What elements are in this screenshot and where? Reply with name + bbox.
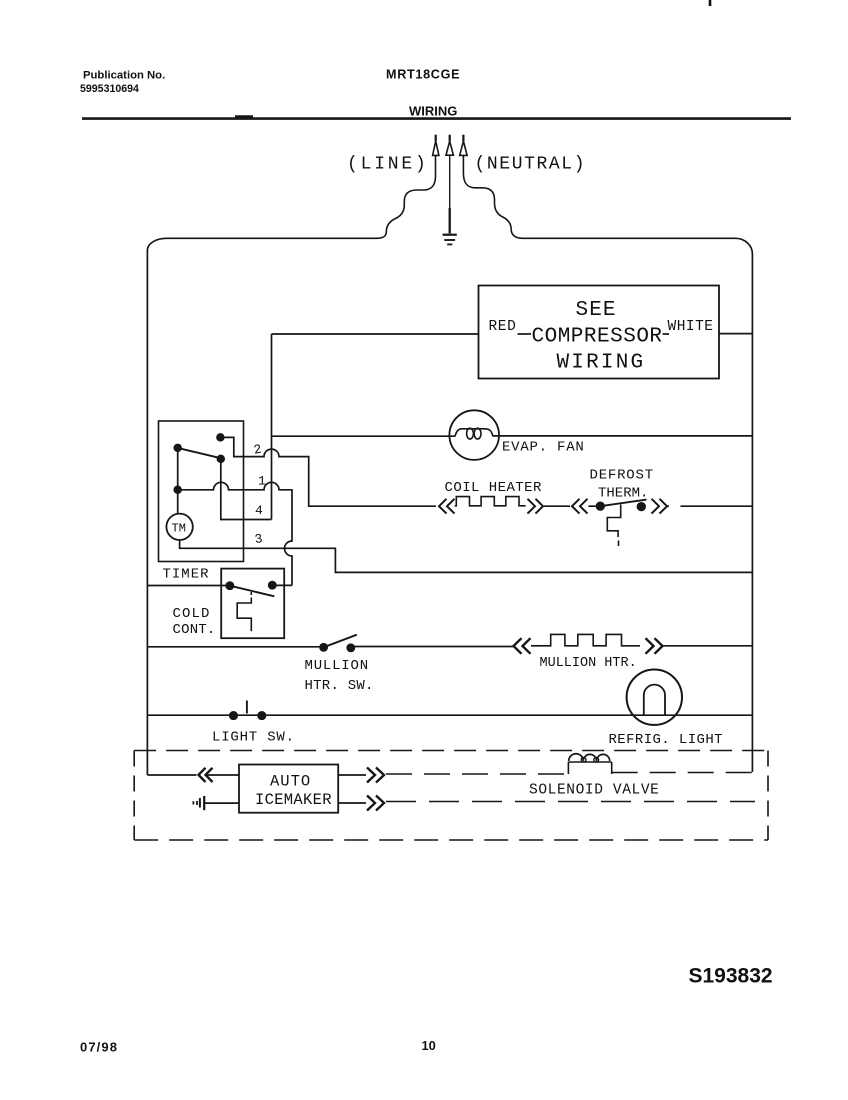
svg-text:07/98: 07/98	[80, 1040, 118, 1055]
wire: chevron tail to icemaker box	[206, 774, 240, 776]
wire	[588, 505, 600, 507]
wire: switch to mullion heater	[351, 646, 513, 648]
wire: white row from box to right edge	[719, 333, 752, 335]
svg-text:S193832: S193832	[689, 965, 773, 988]
rule blob artifact	[235, 115, 253, 118]
wire: timer 4 to main vertical	[221, 459, 272, 520]
svg-text:(NEUTRAL): (NEUTRAL)	[475, 155, 587, 175]
wire: icemaker bottom out	[338, 802, 366, 804]
svg-text:Publication No.: Publication No.	[83, 70, 165, 82]
defrost thermostat terminal dots	[597, 502, 605, 510]
svg-text:MULLION HTR.: MULLION HTR.	[540, 656, 637, 671]
coil heater resistor element	[455, 497, 526, 506]
bulb filament arch	[644, 685, 665, 716]
dashed wire bottom row	[386, 801, 755, 803]
timer terminal 1 dot	[174, 445, 181, 452]
svg-text:SOLENOID VALVE: SOLENOID VALVE	[529, 783, 660, 799]
cold control terminal dots	[226, 582, 233, 589]
icemaker ground symbol	[203, 796, 205, 810]
cabinet outline: top-right corner and right edge	[736, 238, 753, 772]
wire: white lead inside box	[663, 333, 670, 335]
svg-text:CONT.: CONT.	[173, 622, 216, 638]
defrost thermostat: left chevrons	[572, 499, 588, 514]
svg-text:MULLION: MULLION	[305, 658, 369, 674]
svg-text:REFRIG. LIGHT: REFRIG. LIGHT	[609, 732, 723, 748]
timer terminal 3 dot	[174, 486, 181, 493]
svg-text:5995310694: 5995310694	[80, 83, 139, 95]
svg-text:WIRING: WIRING	[409, 104, 457, 119]
light switch plunger	[246, 701, 248, 714]
plug prong arrow: neutral	[460, 135, 736, 239]
plug prong arrow: ground pin	[446, 135, 453, 234]
plug ground symbol	[443, 234, 457, 236]
wire: red compressor feed (vertical main)	[271, 334, 273, 520]
icemaker feed wire from left edge	[147, 774, 196, 776]
svg-text:RED: RED	[489, 319, 517, 335]
icemaker right chevrons (top row)	[367, 768, 384, 783]
svg-text:HTR. SW.: HTR. SW.	[305, 678, 374, 694]
wire	[531, 645, 541, 647]
svg-text:3: 3	[254, 531, 264, 547]
svg-text:THERM.: THERM.	[598, 485, 648, 501]
cold control box	[221, 569, 284, 639]
svg-text:ICEMAKER: ICEMAKER	[255, 791, 332, 809]
svg-text:(LINE): (LINE)	[347, 155, 429, 175]
light switch row wire	[147, 714, 752, 716]
wire: mullion row to right edge	[663, 645, 753, 647]
svg-text:TM: TM	[172, 522, 186, 536]
svg-text:COIL HEATER: COIL HEATER	[445, 480, 543, 496]
svg-text:DEFROST: DEFROST	[590, 468, 654, 484]
svg-text:AUTO: AUTO	[270, 773, 311, 791]
dashed wire solenoid to right edge	[612, 772, 753, 774]
defrost thermostat blade	[600, 500, 646, 507]
dashed wire to solenoid	[386, 773, 568, 775]
icemaker right chevrons (bottom row)	[367, 796, 384, 811]
defrost thermostat: right chevrons	[652, 499, 668, 514]
timer switch blade	[178, 448, 221, 458]
wire: evap fan row	[272, 435, 456, 437]
freezer dashed box: bottom edge	[134, 839, 768, 841]
wire: timer 1 row with crossovers	[178, 482, 292, 585]
timer terminal 2 dot	[217, 434, 224, 441]
mullion heater element	[541, 634, 641, 645]
wire: defrost row to right edge	[667, 505, 752, 507]
timer terminal 4 dot	[217, 456, 224, 463]
defrost thermostat capillary bracket	[607, 505, 620, 538]
wire: red lead inside box	[518, 333, 532, 335]
cabinet outline: top-left corner and left edge	[147, 238, 167, 775]
svg-text:MRT18CGE: MRT18CGE	[386, 68, 460, 82]
icemaker left connector chevrons	[199, 768, 213, 782]
compressor box	[479, 286, 720, 379]
freezer dashed box: right edge	[767, 751, 769, 841]
cold control sensor element	[250, 592, 252, 595]
solenoid valve coil	[568, 762, 611, 774]
mullion heater switch row wire (left)	[147, 646, 323, 648]
page corner tick mark	[709, 0, 712, 6]
wire: timer internal terminal 1-3	[177, 448, 179, 514]
freezer dashed box: left edge	[133, 751, 135, 841]
wire: left edge to cold control	[147, 585, 229, 587]
mullion heater: right chevrons	[646, 638, 663, 654]
timer motor TM circle	[166, 514, 192, 540]
wire: timer terminal 2 to coil heater row	[220, 437, 436, 506]
svg-text:LIGHT SW.: LIGHT SW.	[212, 729, 295, 745]
svg-text:SEE: SEE	[576, 299, 617, 322]
evap fan circle	[449, 410, 499, 460]
svg-text:2: 2	[253, 442, 263, 458]
refrigerator light bulb circle	[627, 670, 682, 725]
timer box	[159, 421, 244, 562]
cold control blade	[230, 586, 274, 597]
wire: red row to compressor box	[272, 333, 479, 335]
svg-text:COLD: COLD	[173, 606, 211, 622]
wire: icemaker top out	[338, 774, 366, 776]
icemaker ground wire	[204, 802, 239, 804]
defrost row: left connector chevrons	[439, 499, 455, 514]
auto icemaker box	[239, 765, 338, 813]
mullion switch blade	[324, 635, 357, 648]
svg-text:EVAP. FAN: EVAP. FAN	[502, 440, 585, 456]
defrost row: chevrons right of heater	[528, 499, 544, 514]
svg-text:1: 1	[258, 474, 266, 489]
wire: cold control to timer-1 drop	[272, 584, 292, 586]
svg-text:WIRING: WIRING	[557, 352, 646, 375]
freezer dashed box: top edge	[134, 750, 768, 752]
svg-text:WHITE: WHITE	[668, 319, 714, 335]
mullion heater: left chevrons	[514, 638, 531, 654]
svg-text:10: 10	[422, 1038, 436, 1053]
mullion switch dots	[320, 644, 327, 651]
svg-text:4: 4	[255, 503, 263, 518]
evap fan motor winding	[455, 429, 493, 437]
wire: timer 3 row	[180, 540, 753, 572]
wire: between heater and defrost thermostat	[544, 505, 570, 507]
light switch dots	[230, 712, 237, 719]
header rule	[82, 117, 791, 120]
plug prong arrow: line	[167, 135, 439, 239]
svg-text:COMPRESSOR: COMPRESSOR	[532, 326, 663, 349]
svg-text:TIMER: TIMER	[163, 567, 210, 583]
